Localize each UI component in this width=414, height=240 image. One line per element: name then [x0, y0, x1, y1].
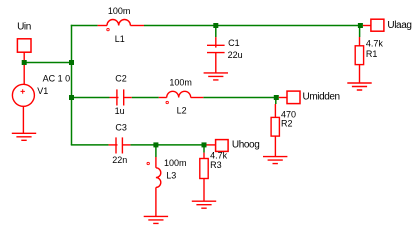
- inductor L3: [147, 157, 161, 216]
- ground below R3: [192, 201, 216, 208]
- voltage source V1: [12, 65, 34, 134]
- junction on bus at middle row: [69, 95, 74, 100]
- wire: L3 drop from bottom row: [155, 145, 157, 157]
- wire: left vertical bus: [71, 25, 73, 145]
- svg-text:R1: R1: [366, 49, 378, 59]
- wire stub: Uin port to node: [23, 52, 25, 60]
- resistor R3: [200, 153, 208, 202]
- svg-text:L3: L3: [166, 171, 176, 181]
- wire stub: Uhoog junction to port: [207, 144, 216, 146]
- wire: R3 drop from Uhoog junction: [203, 145, 205, 153]
- port Ulaag: [371, 19, 384, 31]
- svg-text:L1: L1: [115, 34, 125, 44]
- port Umidden: [287, 91, 300, 104]
- svg-text:AC 1 0: AC 1 0: [43, 73, 71, 83]
- wire: top row from L1 to Ulaag junction: [144, 25, 360, 27]
- junction at Ulaag node: [358, 23, 363, 28]
- ground below R1: [347, 83, 371, 90]
- capacitor C3: [109, 137, 131, 153]
- junction on bus at Uin row: [69, 60, 74, 65]
- svg-text:C1: C1: [228, 38, 240, 48]
- wire: bottom row left segment (bus corner to C3): [71, 144, 109, 146]
- svg-text:100m: 100m: [169, 77, 192, 87]
- svg-text:C3: C3: [115, 122, 127, 132]
- svg-text:4.7k: 4.7k: [366, 38, 384, 48]
- wire stub: Ulaag junction to port: [363, 25, 371, 27]
- resistor R1: [355, 37, 363, 83]
- wire: middle row L2 to Umidden junction: [203, 97, 276, 99]
- junction at Uhoog node: [202, 142, 207, 147]
- ground below L3: [144, 216, 168, 223]
- wire: middle row bus to C2: [72, 97, 110, 99]
- svg-text:Uin: Uin: [17, 22, 31, 33]
- wire: Uin node to bus: [24, 62, 71, 64]
- ground below V1: [12, 133, 36, 140]
- wire: middle row C2 to L2: [132, 97, 159, 99]
- resistor R2: [271, 104, 279, 157]
- svg-text:22n: 22n: [112, 155, 127, 165]
- wire: R2 drop from Umidden junction: [275, 98, 277, 105]
- inductor L1: [98, 20, 144, 31]
- junction at Uin node: [22, 60, 27, 65]
- svg-text:100m: 100m: [164, 158, 187, 168]
- port Uin: [17, 39, 31, 52]
- junction at C1 tap on top row: [213, 23, 218, 28]
- svg-text:R3: R3: [210, 160, 222, 170]
- svg-text:R2: R2: [281, 119, 293, 129]
- wire: R1 drop from Ulaag junction: [359, 26, 361, 38]
- inductor L2: [159, 91, 204, 103]
- svg-text:100m: 100m: [108, 6, 131, 16]
- wire: top row left segment (bus corner to L1): [71, 25, 98, 27]
- svg-text:C2: C2: [115, 74, 127, 84]
- capacitor C1: [207, 37, 225, 73]
- svg-text:22u: 22u: [228, 50, 243, 60]
- wire: C1 drop from top row: [215, 26, 217, 38]
- svg-text:1u: 1u: [115, 106, 125, 116]
- ground below C1: [204, 73, 228, 80]
- svg-text:Umidden: Umidden: [303, 92, 340, 103]
- port Uhoog: [216, 140, 229, 152]
- capacitor C2: [110, 89, 132, 105]
- wire stub: Umidden junction to port: [279, 97, 287, 99]
- junction at Umidden node: [274, 95, 279, 100]
- svg-text:Ulaag: Ulaag: [387, 20, 411, 31]
- wire: bottom row C3 to Uhoog junction: [130, 144, 203, 146]
- svg-text:V1: V1: [37, 86, 48, 96]
- junction at L3 tap on bottom row: [153, 142, 158, 147]
- svg-text:Uhoog: Uhoog: [232, 140, 259, 151]
- svg-text:L2: L2: [177, 106, 187, 116]
- ground below R2: [263, 157, 287, 164]
